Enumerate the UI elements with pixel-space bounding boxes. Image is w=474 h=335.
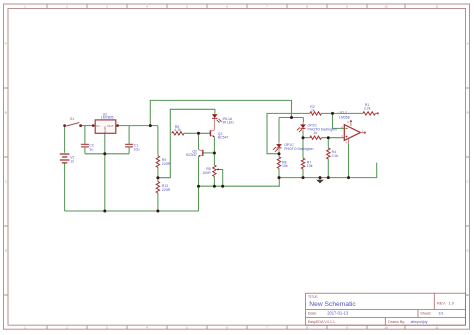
wire R12 bottom lead <box>157 193 159 211</box>
svg-text:10u: 10u <box>134 147 140 151</box>
switch S1 <box>63 117 82 127</box>
wire right ground rail <box>279 163 377 178</box>
svg-text:allwyn4joy: allwyn4joy <box>411 320 428 324</box>
wire R9 to R12 <box>157 167 159 181</box>
wire R4 top lead <box>327 138 329 148</box>
svg-text:GND: GND <box>103 126 107 132</box>
svg-text:B: B <box>467 110 469 114</box>
svg-text:PHOTO Darlington: PHOTO Darlington <box>284 147 313 151</box>
wire R2 to junction A <box>321 112 362 114</box>
svg-text:LM7805: LM7805 <box>101 116 114 120</box>
resistor R3 <box>310 131 322 140</box>
svg-text:EasyEDA V4.1.1: EasyEDA V4.1.1 <box>308 320 335 324</box>
wire OP1C emitter to R8 <box>278 154 280 157</box>
svg-text:1/1: 1/1 <box>438 310 443 315</box>
wire battery positive riser <box>64 126 66 153</box>
svg-text:12: 12 <box>70 160 74 164</box>
capacitor C1 <box>125 144 139 152</box>
wire U2 GND to ground rail <box>104 133 106 211</box>
svg-text:Drawn By:: Drawn By: <box>388 320 405 324</box>
capacitor C2 <box>81 144 94 152</box>
wire Q2 collector riser <box>198 133 200 149</box>
svg-text:1u: 1u <box>89 147 93 151</box>
wire mid cap bus <box>85 153 129 155</box>
svg-text:New Schematic: New Schematic <box>309 301 356 308</box>
svg-text:10: 10 <box>384 5 388 9</box>
wire op-amp non-inverting input riser <box>333 113 345 128</box>
trimmer R5 <box>202 165 222 177</box>
wire bottom ground rail left section <box>65 210 199 212</box>
svg-text:S1: S1 <box>70 117 74 121</box>
wire op-amp V- to ground rail <box>348 143 350 177</box>
wire Q1 emitter to R5 <box>213 137 215 165</box>
wire R5 bottom lead <box>213 177 215 187</box>
junction dots <box>103 112 350 213</box>
resistor R6 <box>172 125 184 135</box>
svg-text:2017-01-13: 2017-01-13 <box>327 310 349 315</box>
open pin dots <box>350 112 379 133</box>
svg-text:U1.1: U1.1 <box>340 110 347 114</box>
svg-text:BC547: BC547 <box>186 153 197 157</box>
photo darlington OP2C <box>297 122 337 132</box>
svg-text:11: 11 <box>435 5 438 9</box>
svg-text:4.7k: 4.7k <box>174 128 181 132</box>
wire divider tap to R6 rail <box>158 109 215 177</box>
wire R8 bottom lead <box>278 169 280 178</box>
svg-text:OUT: OUT <box>107 124 114 128</box>
resistor R12 <box>156 182 170 194</box>
svg-text:11: 11 <box>435 326 438 330</box>
wire R1 open end <box>375 112 377 114</box>
svg-text:10k: 10k <box>282 164 288 168</box>
svg-text:A: A <box>5 41 7 45</box>
battery V1 <box>60 154 75 164</box>
wire C1 top lead <box>128 126 130 144</box>
svg-text:2.2k: 2.2k <box>332 154 339 158</box>
wire U2 OUT to R9 <box>116 125 158 127</box>
resistor R2 <box>310 105 322 115</box>
wire R5 wiper drop <box>222 169 224 186</box>
wire battery negative to ground rail <box>64 164 66 212</box>
wire OP2C node to R3 <box>303 137 310 139</box>
resistor R7 <box>301 158 312 169</box>
resistor R8 <box>277 157 288 169</box>
svg-text:10k: 10k <box>307 164 313 168</box>
wire 5V rail riser and top rail <box>150 100 291 125</box>
resistor R1 <box>363 103 376 115</box>
wire phototransistor collector bus <box>279 117 303 119</box>
wire C2 top lead <box>84 126 86 144</box>
resistor R4 <box>327 148 339 159</box>
svg-text:Date:: Date: <box>308 310 317 315</box>
svg-text:IN: IN <box>96 124 99 128</box>
IR LED D1 <box>212 113 234 130</box>
svg-text:LM358: LM358 <box>339 116 350 120</box>
svg-text:1k: 1k <box>313 131 317 135</box>
transistor Q1 BC547 <box>210 130 228 140</box>
resistor R9 <box>156 156 170 168</box>
wire R9 top lead <box>157 126 159 156</box>
regulator U2 LM7805 <box>92 113 119 134</box>
svg-text:2.2k: 2.2k <box>364 107 371 111</box>
svg-text:100R: 100R <box>202 171 211 175</box>
op-amp U1.1 LM358 <box>339 110 364 144</box>
svg-text:IR LED: IR LED <box>223 121 235 125</box>
svg-text:1k: 1k <box>311 109 315 113</box>
svg-text:A: A <box>467 41 469 45</box>
svg-text:B: B <box>5 110 7 114</box>
wire R3 to op-amp inverting input <box>321 137 344 139</box>
wire bottom mid bus to right ground rail <box>199 178 280 187</box>
wire R7 bottom lead <box>302 169 304 178</box>
svg-text:BC547: BC547 <box>218 136 229 140</box>
wire Q2 base to Q1 emitter node <box>203 152 214 154</box>
ground symbol <box>316 178 324 184</box>
wire OP1C emitter loop to R2 input net <box>267 113 310 153</box>
wire C1 bottom lead <box>128 147 130 154</box>
wire R4 bottom lead <box>327 159 329 178</box>
wire C2 bottom lead <box>84 147 86 154</box>
wire S1 to U2 IN <box>81 125 96 127</box>
svg-text:1.0: 1.0 <box>449 300 455 305</box>
wire OP2C collector drop <box>302 118 304 123</box>
svg-text:Sheet:: Sheet: <box>420 310 431 315</box>
wire OP2C emitter to R3 node and R7 <box>302 131 304 159</box>
wire R6 right to Q1 base <box>184 132 210 134</box>
svg-text:220R: 220R <box>162 162 171 166</box>
svg-text:TITLE:: TITLE: <box>308 295 318 299</box>
wire Q2 emitter to ground rail <box>198 157 200 211</box>
svg-text:PHOTO Darlington: PHOTO Darlington <box>308 127 337 131</box>
wire OP1C collector drop <box>278 118 280 143</box>
svg-text:REV.: REV. <box>437 300 446 305</box>
svg-text:220R: 220R <box>162 188 171 192</box>
transistor Q2 BC547 <box>186 149 203 157</box>
svg-text:10: 10 <box>384 326 388 330</box>
photo darlington OP1C <box>273 142 314 153</box>
